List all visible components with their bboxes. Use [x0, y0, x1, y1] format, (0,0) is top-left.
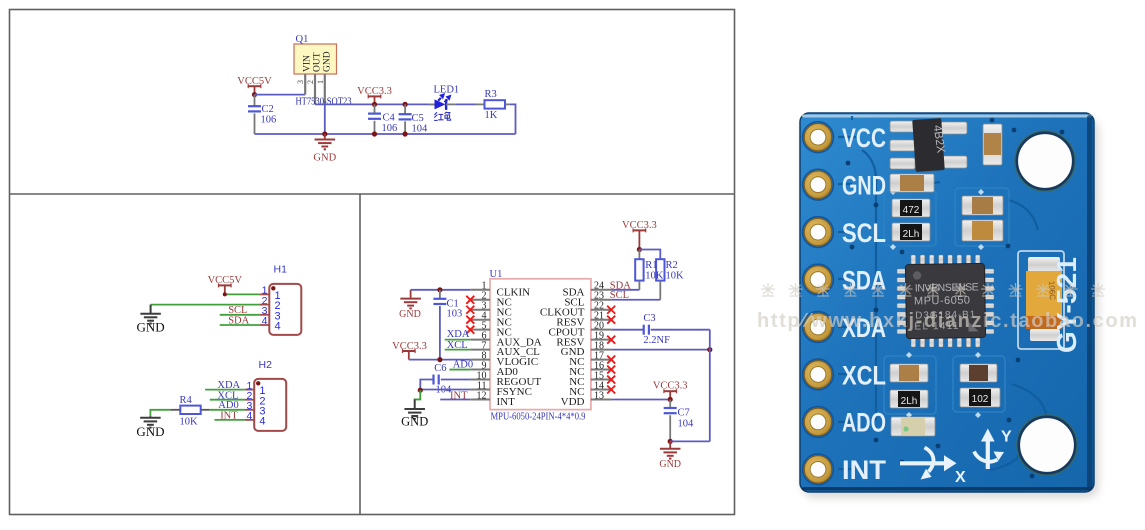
svg-text:12: 12	[477, 390, 487, 401]
tantalum capacitor	[1018, 251, 1064, 349]
svg-text:2: 2	[306, 80, 315, 84]
axis glyph X	[900, 448, 945, 472]
wire R3 to bottom rail right side	[505, 103, 510, 105]
junction right vertical at pin18	[707, 347, 712, 352]
svg-text:VIN: VIN	[303, 55, 313, 72]
U1 pin 3 NC	[470, 309, 490, 311]
svg-text:10K: 10K	[180, 416, 199, 427]
wire H2 pin1 XDA	[205, 389, 245, 391]
svg-text:104: 104	[678, 419, 695, 430]
wire H2 pin2 XCL	[210, 399, 245, 401]
Q1 pin 3 VIN stub	[304, 74, 306, 95]
pad INT	[803, 454, 834, 485]
svg-text:U1: U1	[490, 269, 503, 280]
pad GND	[803, 169, 834, 200]
junction VDD / C7	[668, 397, 673, 402]
svg-text:1K: 1K	[485, 110, 498, 121]
svg-text:R3: R3	[485, 89, 497, 100]
svg-text:103: 103	[447, 308, 463, 319]
U1 pin 19 RESV	[591, 339, 611, 341]
U1 pin 22 CLKOUT	[591, 309, 611, 311]
svg-text:13: 13	[594, 390, 604, 401]
svg-text:C5: C5	[412, 113, 424, 124]
pad SDA	[803, 264, 834, 295]
wire R4 to GND	[170, 409, 180, 411]
IC U1 MPU-6050 body	[490, 279, 591, 410]
wire R4 to H2 pin3 AD0	[201, 409, 210, 411]
pad XDA	[803, 312, 834, 343]
junction C1 bottom at VLOGIC wire	[437, 357, 442, 362]
svg-text:X: X	[955, 469, 966, 486]
junction GND rail at C5	[403, 131, 408, 136]
wire pin23 SCL to R2	[611, 299, 660, 301]
svg-text:INVENSENSE: INVENSENSE	[915, 281, 979, 294]
no-connect marks right pins 22 21 19 17 16 15 14	[607, 306, 615, 314]
wire U1 pin6 XDA	[445, 339, 471, 341]
capacitor C5	[404, 104, 406, 113]
U1 pin 11 FSYNC	[470, 389, 490, 391]
svg-text:C3: C3	[643, 313, 655, 324]
wire Q1 GND pin to bottom rail	[324, 104, 326, 134]
svg-text:VCC3.3: VCC3.3	[653, 381, 688, 392]
svg-text:C7: C7	[678, 408, 690, 419]
U1 pin 5 NC	[470, 329, 490, 331]
svg-text:472: 472	[903, 205, 920, 216]
wire junction down to ground	[415, 390, 421, 400]
U1 pin 9 AD0	[470, 369, 490, 371]
capacitor C1	[439, 290, 441, 299]
U1 pin 2 NC	[470, 299, 490, 301]
resistor R3	[485, 100, 506, 108]
U1 pin 21 RESV	[591, 319, 611, 321]
pad VCC	[803, 122, 834, 153]
ground symbol H2 panel	[149, 416, 151, 418]
SMD resistor 472	[892, 199, 930, 217]
svg-text:http⁄⁄www.hxkj-dianzic.taobao.: http⁄⁄www.hxkj-dianzic.taobao.com	[757, 310, 1137, 332]
panel divider vertical	[359, 194, 361, 515]
watermark hanzi row	[761, 283, 1105, 296]
junction C5 on rail	[403, 102, 408, 107]
IC MPU-6050 chip pins	[897, 255, 994, 347]
U1 pin 15 NC	[591, 379, 611, 381]
U1 pin 6 AUX_DA	[470, 339, 490, 341]
junction GND rail at C4	[372, 131, 377, 136]
bottom GND rail top panel	[255, 133, 516, 135]
wire pin13 VDD	[611, 398, 670, 400]
svg-text:GND: GND	[323, 51, 333, 72]
svg-text:106: 106	[261, 115, 277, 126]
3.3V rail wire	[315, 103, 435, 105]
svg-text:104: 104	[412, 124, 429, 135]
PCB via dots	[846, 161, 851, 166]
label red color hanzi hong-se	[434, 112, 450, 121]
U1 pin 16 NC	[591, 369, 611, 371]
svg-text:INT: INT	[842, 455, 887, 485]
junction at VCC5V / C2	[252, 92, 257, 97]
SMD resistor 472 lower	[890, 390, 928, 408]
LED LED1	[429, 103, 435, 105]
H1 pin 4 stub	[260, 324, 270, 326]
wire H2 pin4 INT	[215, 419, 245, 421]
wire U1 pin7 XCL	[445, 349, 471, 351]
capacitor C7	[669, 399, 671, 407]
SMD cap right vertical	[983, 124, 1002, 165]
H2 pin 3 stub	[245, 409, 255, 411]
svg-text:ADO: ADO	[842, 408, 886, 438]
silkscreen dots	[906, 352, 912, 358]
svg-text:106: 106	[382, 123, 398, 134]
svg-text:HT7530-SOT23: HT7530-SOT23	[296, 97, 352, 108]
svg-text:OUT: OUT	[313, 52, 323, 72]
svg-text:C6: C6	[434, 363, 446, 374]
U1 pin 20 CPOUT	[591, 329, 611, 331]
wire H1 pin4 SDA	[220, 324, 260, 326]
svg-text:AD0: AD0	[453, 359, 473, 370]
U1 pin 24 SDA	[591, 289, 611, 291]
wire U1 pin11 FSYNC	[420, 389, 470, 391]
svg-text:GND: GND	[136, 424, 164, 439]
svg-text:GND: GND	[399, 309, 421, 320]
photo background	[745, 0, 1145, 530]
regulator Q1 HT7530 body	[294, 44, 337, 74]
svg-text:10K: 10K	[666, 271, 685, 282]
junction C1 top	[437, 287, 442, 292]
schematic sheet frame	[10, 10, 735, 515]
wire VCC5V to Q1 VIN	[255, 94, 306, 96]
SMD cap XCL row left	[890, 364, 928, 382]
svg-text:VCC: VCC	[842, 123, 886, 153]
svg-text:1: 1	[316, 80, 325, 84]
U1 pin 17 NC	[591, 359, 611, 361]
U1 pin 8 VLOGIC	[470, 359, 490, 361]
svg-text:4: 4	[275, 321, 281, 333]
junction C6/FSYNC	[418, 388, 423, 393]
SOT23 regulator 4B2X body	[912, 118, 948, 172]
right vertical wire C3 to bottom	[709, 330, 711, 442]
svg-text:4: 4	[259, 416, 265, 428]
wire C7 bottom to right vertical	[670, 440, 710, 442]
H1 pin 2 stub	[260, 304, 270, 306]
junction C7 bottom	[668, 439, 673, 444]
svg-text:SCL: SCL	[842, 218, 886, 248]
svg-text:R4: R4	[180, 395, 193, 406]
svg-text:4: 4	[262, 315, 268, 327]
IC MPU-6050 chip body	[905, 263, 985, 338]
PCB silkscreen outline boxes	[884, 188, 1009, 414]
wire H1 pin1 to VCC5V	[225, 293, 260, 295]
resistor R4	[180, 406, 200, 414]
svg-text:GND: GND	[659, 459, 681, 470]
SMD resistor 472 inverted	[892, 223, 930, 241]
junction R1 R2 top	[637, 247, 642, 252]
svg-text:2Lh: 2Lh	[901, 396, 918, 407]
svg-text:XDA: XDA	[447, 329, 470, 340]
mounting hole bottom right	[1017, 415, 1077, 475]
svg-text:C2: C2	[262, 104, 274, 115]
svg-text:C4: C4	[383, 113, 396, 124]
svg-text:H2: H2	[259, 359, 273, 371]
U1 pin 12 INT	[470, 398, 490, 400]
U1 pin 18 GND	[591, 349, 611, 351]
svg-text:GND: GND	[842, 170, 886, 200]
U1 pin 10 REGOUT	[470, 379, 490, 381]
svg-text:Y: Y	[1001, 429, 1012, 446]
svg-text:MPU-6050-24PIN-4*4*0.9: MPU-6050-24PIN-4*4*0.9	[491, 410, 586, 422]
U1 pin 13 VDD	[591, 398, 611, 400]
H1 pin 1 stub	[260, 293, 270, 295]
SMD LED	[891, 417, 935, 436]
ground symbol at U1 CLKIN	[410, 290, 412, 299]
pad XCL	[803, 359, 834, 390]
H2 pin 4 stub	[245, 419, 255, 421]
wire U1 pin12 INT	[440, 398, 470, 400]
SMD cap below regulator	[890, 174, 934, 192]
svg-text:LED1: LED1	[434, 85, 460, 96]
SMD cap XCL row right	[960, 364, 997, 382]
wire pin24 SDA to R1	[611, 289, 639, 291]
U1 pin 1 CLKIN	[470, 289, 490, 291]
svg-text:XCL: XCL	[842, 360, 886, 390]
ground symbol below C7	[669, 441, 671, 448]
svg-text:GND: GND	[137, 320, 165, 335]
wire U1 pin9 AD0	[449, 369, 470, 371]
resistor R2	[639, 250, 660, 260]
H2 pin 2 stub	[245, 399, 255, 401]
svg-text:H1: H1	[274, 264, 288, 276]
capacitor C2	[254, 95, 256, 106]
capacitor C4	[374, 104, 376, 113]
SMD resistor 102	[960, 388, 1000, 407]
svg-text:4: 4	[247, 410, 253, 422]
svg-text:Q1: Q1	[296, 34, 309, 45]
SOT23 regulator 4B2X legs	[890, 121, 967, 169]
ground symbol below C6	[414, 399, 416, 409]
PCB board GY-521	[800, 113, 1094, 492]
SMD cap mid right 1	[962, 196, 1003, 215]
H2 pin 1 stub	[245, 389, 255, 391]
pad ADO	[803, 407, 834, 438]
svg-text:2.2NF: 2.2NF	[643, 335, 670, 346]
U1 pin 14 NC	[591, 389, 611, 391]
pad SCL	[803, 217, 834, 248]
svg-text:VDD: VDD	[561, 396, 585, 408]
SMD cap mid right 2	[962, 220, 1003, 241]
svg-text:102: 102	[972, 394, 989, 405]
ground symbol top panel	[324, 134, 326, 140]
mounting hole top right	[1015, 131, 1075, 191]
U1 pin 7 AUX_CL	[470, 349, 490, 351]
svg-text:GY-521: GY-521	[1051, 257, 1082, 353]
svg-text:GND: GND	[313, 153, 336, 164]
svg-text:3: 3	[296, 80, 305, 84]
wire H1 pin3 SCL	[220, 314, 260, 316]
svg-text:2Lh: 2Lh	[903, 229, 920, 240]
junction GND rail at Q1 pin1	[322, 131, 327, 136]
wire VLOGIC to VCC3.3	[409, 359, 471, 361]
Q1 pin 2 OUT stub	[314, 74, 316, 104]
wire CLKIN to GND	[411, 289, 471, 291]
U1 pin 23 SCL	[591, 299, 611, 301]
svg-text:INT: INT	[497, 396, 516, 408]
panel divider horizontal	[10, 193, 735, 195]
svg-text:GND: GND	[401, 415, 428, 429]
junction VCC3.3 / C4 on rail	[372, 102, 377, 107]
PCB copper trace texture	[838, 116, 1046, 470]
axis glyph Y	[974, 441, 998, 469]
ground symbol H1 panel	[150, 305, 152, 314]
wire LED to R3	[455, 103, 475, 105]
Q1 pin 1 GND stub	[324, 74, 326, 104]
no-connect marks left pins 2-5	[466, 296, 474, 304]
wire pin18 GND to right vertical	[611, 349, 710, 351]
U1 pin 4 NC	[470, 319, 490, 321]
resistor R1	[638, 250, 640, 260]
wire H1 pin2 to GND	[151, 304, 260, 306]
H1 pin 3 stub	[260, 314, 270, 316]
svg-text:10K: 10K	[645, 271, 664, 282]
